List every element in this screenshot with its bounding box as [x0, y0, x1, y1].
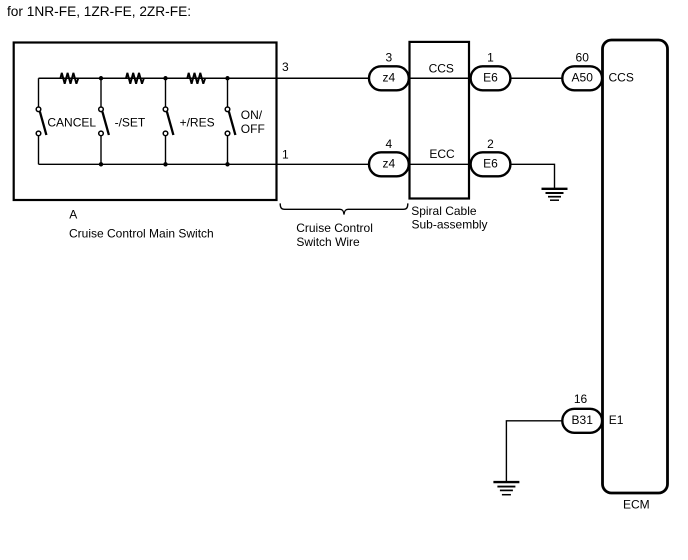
svg-text:z4: z4 — [383, 157, 396, 171]
resistor between CANCEL and -/SET switches — [60, 73, 78, 84]
svg-text:Cruise Control Main Switch: Cruise Control Main Switch — [69, 226, 214, 240]
connector z4 pin 3 — [369, 66, 409, 90]
junction dot top bus at -/SET — [99, 76, 103, 80]
connector E6 pin 1 — [471, 66, 511, 90]
svg-text:1: 1 — [282, 148, 289, 162]
junction dot bottom bus at -/SET — [99, 162, 103, 166]
junction dot bottom bus at ON/OFF — [225, 162, 229, 166]
svg-text:A50: A50 — [572, 71, 594, 85]
svg-text:4: 4 — [386, 137, 393, 151]
box: ECM — [603, 40, 668, 493]
svg-text:1: 1 — [487, 51, 494, 65]
svg-text:ON/: ON/ — [241, 108, 263, 122]
svg-text:for 1NR-FE, 1ZR-FE, 2ZR-FE:: for 1NR-FE, 1ZR-FE, 2ZR-FE: — [7, 4, 191, 19]
connector A50 pin 60 — [562, 66, 602, 90]
svg-text:z4: z4 — [383, 71, 396, 85]
svg-text:CCS: CCS — [429, 62, 454, 76]
box: Spiral Cable Sub-assembly — [410, 42, 470, 199]
wire: CCS inside spiral cable box — [410, 77, 470, 79]
svg-text:16: 16 — [574, 392, 588, 406]
svg-text:3: 3 — [386, 51, 393, 65]
svg-text:3: 3 — [282, 60, 289, 74]
resistor between +/RES and ON/OFF switches — [187, 73, 205, 84]
wire: B31 pin 16 to ground — [506, 421, 563, 482]
wire: CCS line through spiral cable sub-assembly — [408, 77, 472, 79]
svg-text:ECC: ECC — [429, 147, 455, 161]
resistor between -/SET and +/RES switches — [126, 73, 144, 84]
connector z4 pin 4 — [369, 152, 409, 176]
wire: bottom switch bus (pin 1) to z4 — [39, 163, 371, 165]
svg-text:Sub-assembly: Sub-assembly — [412, 217, 488, 231]
svg-text:OFF: OFF — [241, 122, 265, 136]
svg-text:CANCEL: CANCEL — [47, 115, 96, 129]
svg-text:+/RES: +/RES — [180, 115, 215, 129]
ground symbol at B31 — [493, 482, 519, 495]
svg-text:ECM: ECM — [623, 497, 650, 511]
connector E6 pin 2 — [471, 152, 511, 176]
svg-text:60: 60 — [576, 51, 590, 65]
svg-text:CCS: CCS — [609, 71, 634, 85]
svg-text:E6: E6 — [483, 157, 498, 171]
wire: ECC line through spiral cable sub-assembly — [408, 163, 472, 165]
brace: cruise control switch wire — [280, 203, 408, 214]
switch -/SET — [99, 78, 109, 164]
connector B31 pin 16 — [562, 409, 602, 433]
svg-text:Spiral Cable: Spiral Cable — [411, 204, 477, 218]
switch +/RES — [163, 78, 173, 164]
box: Cruise Control Main Switch — [14, 43, 277, 201]
junction dot top bus at +/RES — [163, 76, 167, 80]
svg-text:E6: E6 — [483, 71, 498, 85]
wire: E6 pin 1 to A50 — [509, 77, 564, 79]
svg-text:2: 2 — [487, 137, 494, 151]
junction dot bottom bus at +/RES — [163, 162, 167, 166]
svg-text:E1: E1 — [609, 413, 624, 427]
svg-text:A: A — [69, 208, 77, 222]
svg-text:B31: B31 — [572, 413, 594, 427]
svg-text:Cruise Control: Cruise Control — [296, 221, 373, 235]
svg-text:-/SET: -/SET — [115, 115, 146, 129]
svg-text:Switch Wire: Switch Wire — [296, 235, 360, 249]
wire: ECC inside spiral cable box — [410, 163, 470, 165]
switch CANCEL — [36, 78, 46, 164]
wire: top switch bus (pin 3) to z4 — [39, 77, 371, 79]
ground symbol at E6 pin 2 — [542, 189, 568, 200]
wire: E6 pin 2 to ground — [509, 164, 555, 189]
switch ON/OFF — [225, 78, 235, 164]
junction dot top bus at ON/OFF — [225, 76, 229, 80]
